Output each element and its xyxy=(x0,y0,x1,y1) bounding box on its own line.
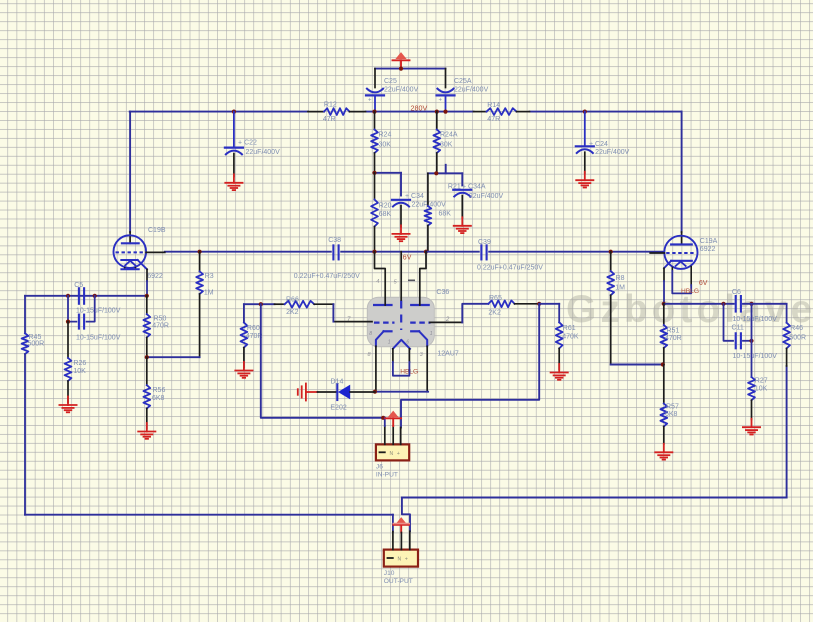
resistor R3 xyxy=(198,250,202,254)
svg-text:R3: R3 xyxy=(205,273,214,280)
svg-text:C5: C5 xyxy=(74,282,83,289)
svg-text:10-15uF/100V: 10-15uF/100V xyxy=(76,334,121,341)
svg-text:6V: 6V xyxy=(699,280,708,287)
svg-text:R20: R20 xyxy=(379,203,392,210)
power port +V top xyxy=(395,52,406,59)
capacitor C6 xyxy=(735,296,737,312)
resistor R12 xyxy=(308,111,324,113)
pin grid C19B xyxy=(146,251,165,253)
svg-text:+: + xyxy=(439,98,443,104)
svg-text:2K2: 2K2 xyxy=(286,309,299,316)
svg-text:30K: 30K xyxy=(440,142,453,149)
svg-text:R46: R46 xyxy=(790,325,803,332)
resistor R66 xyxy=(275,303,285,305)
svg-text:+ C22: + C22 xyxy=(238,140,257,147)
node cathode C19B xyxy=(145,294,149,298)
svg-text:22uF/400V: 22uF/400V xyxy=(384,87,419,94)
svg-text:C25: C25 xyxy=(384,78,397,85)
wire pin2 up xyxy=(462,304,488,323)
svg-text:6922: 6922 xyxy=(147,273,163,280)
resistor R60 xyxy=(243,304,245,322)
svg-text:R51: R51 xyxy=(667,328,680,335)
resistor R46 xyxy=(786,304,788,323)
svg-text:10-15uF/100V: 10-15uF/100V xyxy=(733,316,778,323)
resistor R51 xyxy=(663,304,665,325)
node R51 bottom xyxy=(661,362,665,366)
wire R66 to pin7 xyxy=(332,304,334,321)
svg-text:68K: 68K xyxy=(379,211,392,218)
wire R3 to R50 node xyxy=(147,356,200,358)
svg-text:6K8: 6K8 xyxy=(152,395,165,402)
resistor R8 xyxy=(609,250,613,254)
svg-text:22uF/400V: 22uF/400V xyxy=(246,149,281,156)
wire left cathode bus xyxy=(25,295,147,297)
svg-text:1: 1 xyxy=(388,339,391,345)
wire top rail xyxy=(375,68,446,70)
wire output riser to J6 pin3 xyxy=(401,304,539,428)
wire J10 top long xyxy=(402,497,787,499)
capacitor C11 parallel xyxy=(724,304,734,341)
wire C6 to R46 xyxy=(743,303,787,305)
svg-text:+ C24: + C24 xyxy=(589,141,608,148)
svg-text:R60: R60 xyxy=(247,325,260,332)
capacitor C38 xyxy=(332,245,334,259)
pin 2 wire xyxy=(430,321,462,323)
ground R60 xyxy=(243,362,245,371)
svg-text:470R: 470R xyxy=(665,335,682,342)
pin 3 wire xyxy=(426,346,428,391)
resistor R50 xyxy=(146,296,148,314)
svg-text:22uF/400V: 22uF/400V xyxy=(595,149,630,156)
resistor R65 xyxy=(488,300,514,307)
ground C34 xyxy=(400,225,402,234)
resistor R61 xyxy=(558,304,560,323)
pin 9 wire xyxy=(420,252,426,305)
twin triode C36 envelope xyxy=(367,297,434,346)
node C5 branch right xyxy=(93,294,97,298)
svg-text:1M: 1M xyxy=(615,285,625,292)
svg-text:2K2: 2K2 xyxy=(488,310,501,317)
capacitor C25 xyxy=(374,69,376,88)
capacitor C25A xyxy=(445,69,447,88)
svg-text:1: 1 xyxy=(430,331,433,337)
node R24A wire xyxy=(434,171,438,175)
svg-text:E202: E202 xyxy=(330,405,346,412)
svg-text:47R: 47R xyxy=(323,116,336,123)
connector J10 xyxy=(384,550,418,567)
svg-text:470R: 470R xyxy=(152,322,169,329)
wire left to J10 pin1 xyxy=(25,514,393,516)
node R24 R20 xyxy=(372,171,376,175)
svg-text:6922: 6922 xyxy=(700,246,716,253)
svg-text:470K: 470K xyxy=(562,334,579,341)
wire top to J10 pin3 xyxy=(402,498,410,532)
svg-text:30K: 30K xyxy=(379,142,392,149)
connector J6 xyxy=(376,444,409,460)
node R26 top xyxy=(66,320,70,324)
ground R56 xyxy=(146,423,148,432)
resistor R56 xyxy=(146,357,148,385)
node C11 right xyxy=(749,339,753,343)
power port J10 pin2 xyxy=(396,517,406,523)
svg-text:C6: C6 xyxy=(732,289,741,296)
resistor R26 xyxy=(67,322,69,358)
node C25 rail xyxy=(372,110,376,114)
resistor R24 xyxy=(374,112,376,130)
svg-text:6K8: 6K8 xyxy=(665,411,678,418)
svg-text:47R: 47R xyxy=(487,116,500,123)
svg-text:0.22uF+0.47uF/250V: 0.22uF+0.47uF/250V xyxy=(294,273,360,280)
node C6 left xyxy=(721,302,725,306)
svg-text:6: 6 xyxy=(406,339,409,345)
svg-text:0.22uF+0.47uF/250V: 0.22uF+0.47uF/250V xyxy=(477,265,543,272)
wire grid left tube to C38 xyxy=(165,251,331,253)
wire R60 to R66 xyxy=(244,303,275,305)
svg-text:N: N xyxy=(390,451,394,457)
ground R61 xyxy=(558,364,560,373)
svg-text:+: + xyxy=(397,451,400,457)
ground R26 xyxy=(67,397,69,406)
svg-text:IN-PUT: IN-PUT xyxy=(376,471,398,478)
wire to diode xyxy=(318,391,338,393)
capacitor C5B parallel xyxy=(68,296,76,322)
svg-text:R26: R26 xyxy=(73,360,86,367)
pin 7 wire xyxy=(333,321,372,323)
svg-text:500R: 500R xyxy=(28,341,45,348)
svg-text:HBLG: HBLG xyxy=(681,288,699,295)
wire 280V rail xyxy=(130,111,308,113)
capacitor C34A xyxy=(453,189,471,191)
svg-text:C19A: C19A xyxy=(700,238,718,245)
ground C34A xyxy=(461,217,463,226)
triode C19B xyxy=(129,112,131,232)
svg-text:10K: 10K xyxy=(73,368,86,375)
wire R24A to C34A xyxy=(428,172,462,174)
svg-text:R24: R24 xyxy=(379,132,392,139)
node R65 out xyxy=(537,302,541,306)
svg-text:12AU7: 12AU7 xyxy=(437,351,459,358)
node C5 branch left xyxy=(66,294,70,298)
node cathode C19A xyxy=(662,302,666,306)
svg-text:C19B: C19B xyxy=(148,227,166,234)
heater pin wires xyxy=(392,349,394,362)
pin 4 wire xyxy=(375,252,386,305)
node input riser xyxy=(259,302,263,306)
svg-text:R27: R27 xyxy=(755,377,768,384)
svg-text:R65: R65 xyxy=(489,295,502,302)
wire C6 right down xyxy=(751,304,753,377)
wire C39 to right tube grid xyxy=(489,251,663,253)
svg-text:+: + xyxy=(405,557,408,563)
resistor R21 xyxy=(425,206,432,226)
resistor R45 xyxy=(24,296,26,334)
svg-text:10-15uF/100V: 10-15uF/100V xyxy=(76,308,121,315)
svg-text:+ C34: + C34 xyxy=(405,193,424,200)
node diode cathode bus xyxy=(373,390,377,394)
svg-text:68K: 68K xyxy=(439,210,452,217)
svg-text:6V: 6V xyxy=(403,254,412,261)
capacitor C5 xyxy=(78,288,80,304)
svg-text:C11: C11 xyxy=(732,325,744,332)
resistor R14 xyxy=(474,111,487,113)
capacitor C34 xyxy=(392,199,410,201)
resistor R57 xyxy=(663,365,665,404)
wire R24 to C34 xyxy=(375,172,402,174)
svg-text:R14: R14 xyxy=(487,102,500,109)
svg-text:C39: C39 xyxy=(478,239,491,246)
node C6 right xyxy=(749,302,753,306)
svg-text:+: + xyxy=(368,98,372,104)
pin grid C19A xyxy=(650,252,664,254)
resistor R27 xyxy=(748,377,755,400)
heater C36 xyxy=(393,340,410,349)
pin cathode C19B xyxy=(146,269,148,281)
svg-text:R66: R66 xyxy=(286,297,299,304)
node R20 bottom xyxy=(372,250,376,254)
pins J10 xyxy=(392,532,394,550)
svg-text:R61: R61 xyxy=(563,325,576,332)
ground R27 xyxy=(751,419,753,428)
svg-text:500R: 500R xyxy=(789,335,806,342)
svg-text:C25A: C25A xyxy=(454,78,472,85)
svg-text:R24A: R24A xyxy=(440,132,458,139)
triode C19A xyxy=(681,112,683,232)
wire J6 pin1 stub xyxy=(384,418,386,426)
svg-text:N: N xyxy=(398,557,402,563)
svg-text:R8: R8 xyxy=(616,275,625,282)
pin 8 wire xyxy=(375,346,377,391)
wire C38 to tube pins xyxy=(341,251,374,253)
node C25A rail xyxy=(443,110,447,114)
wire R65 to R61 xyxy=(539,303,559,305)
pins J6 xyxy=(384,426,386,444)
svg-text:10K: 10K xyxy=(755,385,768,392)
cathodes C36 xyxy=(384,330,392,332)
wire right cathode bus xyxy=(664,303,734,305)
node R21 bottom xyxy=(424,250,428,254)
ground R57 xyxy=(663,444,665,453)
resistor R24A xyxy=(436,112,438,130)
pin cathode C19A xyxy=(663,268,665,281)
svg-text:+ C34A: + C34A xyxy=(462,184,486,191)
capacitor C24 xyxy=(583,110,587,114)
capacitor C22 xyxy=(232,110,236,114)
resistor R20 xyxy=(374,173,376,200)
wire cathode bus xyxy=(375,391,428,393)
wire input riser to J6 xyxy=(261,304,385,418)
power port J6 pin2 xyxy=(388,411,398,417)
svg-text:J6: J6 xyxy=(376,464,383,471)
svg-text:8: 8 xyxy=(369,331,372,337)
anode bars C36 xyxy=(374,304,391,306)
node top rail xyxy=(399,67,403,71)
svg-text:22uF/400V: 22uF/400V xyxy=(454,87,489,94)
center shield dashed xyxy=(400,301,402,331)
pin 5 wire xyxy=(400,252,402,300)
node R24A rail xyxy=(435,110,439,114)
wire tube pins to C39 xyxy=(426,251,479,253)
svg-text:10-15uF/100V: 10-15uF/100V xyxy=(733,353,778,360)
power ground bar left-pointing xyxy=(305,384,307,401)
svg-text:R21: R21 xyxy=(448,184,461,191)
node R50 bottom xyxy=(145,355,149,359)
svg-text:C38: C38 xyxy=(328,237,341,244)
svg-text:J10: J10 xyxy=(384,570,395,577)
svg-text:4: 4 xyxy=(376,279,379,285)
capacitor C39 xyxy=(480,245,482,259)
diode D14 xyxy=(336,384,338,400)
grid dashes C36 xyxy=(374,322,395,324)
svg-text:R56: R56 xyxy=(153,387,166,394)
heater pins C19A xyxy=(671,268,673,272)
svg-text:R12: R12 xyxy=(324,101,337,108)
svg-text:OUT-PUT: OUT-PUT xyxy=(384,578,413,585)
svg-text:R57: R57 xyxy=(666,404,679,411)
wire R8 to R51 node xyxy=(611,364,663,366)
svg-text:1M: 1M xyxy=(204,290,214,297)
node J6 pin1 xyxy=(381,416,385,420)
svg-text:C36: C36 xyxy=(436,289,449,296)
svg-text:22uF/400V: 22uF/400V xyxy=(469,193,504,200)
svg-text:D14: D14 xyxy=(331,378,344,385)
